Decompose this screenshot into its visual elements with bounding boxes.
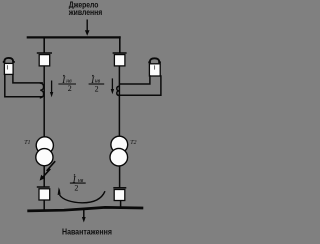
current direction arrow (left feeder) xyxy=(50,81,53,98)
bottom busbar (slightly sloped as in scan) xyxy=(27,207,143,211)
relay device KA1 (left, dome-top box) xyxy=(3,58,15,75)
current label Iнв/2 (bottom, over curved arrow) xyxy=(70,174,86,192)
fault lightning bolt on T1 feeder xyxy=(40,161,56,180)
transformer T2 (two circles) xyxy=(110,136,128,166)
load feeder arrow from bottom busbar xyxy=(82,209,86,223)
wire: right relay right terminal down and to CT (lower) xyxy=(120,75,161,95)
wire: right relay left terminal down and to CT (upper) xyxy=(120,75,150,84)
left feeder wire: breaker to transformer xyxy=(43,66,45,138)
wire: T2 bottom to lower breaker xyxy=(119,166,121,188)
wire: T1 bottom to lower breaker xyxy=(43,166,45,187)
svg-text:Навантаження: Навантаження xyxy=(62,227,112,236)
svg-text:живлення: живлення xyxy=(68,8,102,17)
wire: left relay left terminal down and to CT (lower) xyxy=(5,75,43,97)
breaker Q1 (top-left): bar + box xyxy=(37,53,52,66)
svg-text:Т2: Т2 xyxy=(130,140,136,146)
current label Iнв/2 (left) xyxy=(58,75,76,93)
wire: busbar to left breaker xyxy=(43,38,45,53)
breaker Q3 (bottom-left): bar + box xyxy=(37,187,50,200)
top busbar xyxy=(27,36,121,38)
relay device KA2 (right, dome-top box) xyxy=(148,58,161,76)
wire: left lower breaker to bottom busbar xyxy=(43,200,45,211)
svg-text:2: 2 xyxy=(74,184,78,193)
svg-text:2: 2 xyxy=(95,84,99,93)
current direction arrow (right feeder) xyxy=(111,78,114,94)
curved arrow: current path from T2 along busbar xyxy=(58,187,105,203)
current transformer TA2 secondary (right, bumps on line) xyxy=(117,86,119,95)
wire: right lower breaker to bottom busbar xyxy=(120,201,122,209)
wire: left relay right terminal down and to CT (upper) xyxy=(13,75,43,83)
arrow from source to busbar xyxy=(85,20,90,36)
right feeder wire: breaker to transformer xyxy=(118,66,120,137)
svg-text:2: 2 xyxy=(68,84,72,93)
wire: busbar right corner down to right breaker xyxy=(119,36,121,52)
breaker Q4 (bottom-right): bar + box xyxy=(113,188,126,201)
transformer T1 (two circles) xyxy=(36,137,54,166)
breaker Q2 (top-right): bar + box xyxy=(113,53,127,66)
current label Iнв/2 (right) xyxy=(89,75,105,94)
label: Джерело живлення (supply source) xyxy=(68,0,102,17)
current transformer TA1 secondary (left, "3"-shaped winding) xyxy=(40,83,44,98)
svg-text:Т1: Т1 xyxy=(24,140,30,146)
